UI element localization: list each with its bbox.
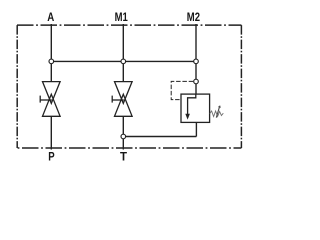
wire: valve V2 to port T — [122, 116, 124, 149]
wire: relief outlet to T node — [123, 136, 196, 138]
node: relief pilot junction — [194, 79, 199, 84]
svg-text:M2: M2 — [187, 12, 200, 24]
wire: valve V1 to port P — [50, 116, 52, 149]
wire: horizontal node line A-M1-M2 — [51, 60, 196, 62]
wire: port A down to valve V1 — [50, 24, 52, 82]
valve V1 (shut-off valve A-P) — [40, 82, 60, 117]
spring (adjustable) — [210, 111, 224, 117]
valve V2 (shut-off valve M1-T) — [112, 82, 132, 117]
svg-text:M1: M1 — [115, 12, 129, 24]
relief valve body (envelope) — [181, 94, 210, 122]
wire: port M2 down to relief valve — [195, 24, 197, 94]
wire: relief valve outlet down — [195, 122, 197, 136]
pilot line (dashed) — [171, 81, 193, 99]
node: T junction — [121, 134, 126, 139]
svg-text:T: T — [120, 151, 127, 163]
node: M2 junction — [194, 59, 199, 64]
node: A junction — [49, 59, 54, 64]
svg-text:P: P — [48, 151, 55, 163]
adjustment arrow through spring — [216, 107, 219, 118]
relief valve flow path arrow — [188, 94, 196, 115]
svg-text:A: A — [47, 12, 54, 24]
node: M1 junction — [121, 59, 126, 64]
wire: port M1 down to valve V2 — [122, 24, 124, 82]
enclosure boundary (dash-dot frame) — [17, 25, 241, 148]
